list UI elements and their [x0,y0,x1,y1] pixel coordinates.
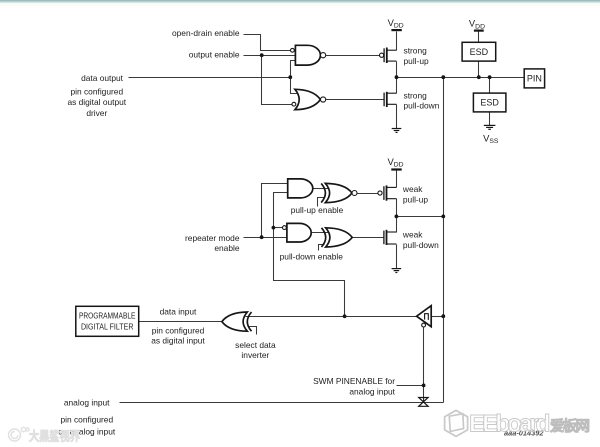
wire data input branch to AND U3 input 2 and AND U4 input 1 [274,193,345,317]
svg-text:strong: strong [404,90,428,100]
watermark EEboard logo hexagon [445,410,468,436]
XNOR U5 input arc [321,183,325,202]
wire SWM PINENABLE to control junction [397,385,424,387]
svg-text:pin configured: pin configured [70,87,123,97]
wire ESD1 to pin line [478,62,480,78]
wire strong output node vertical [396,62,398,94]
svg-text:data input: data input [160,307,197,317]
svg-text:爱板网: 爱板网 [550,417,590,435]
weak pull-up gate bubble [378,191,382,195]
wire repeater mode enable to AND U4 input 2 [244,237,287,239]
node junction data input / AND U4 bubble [272,226,276,230]
transistor Q3 weak pull-up PMOS [384,185,397,200]
node junction SWM control [422,384,426,388]
wire VDD to strong pull-up source [396,32,398,51]
wire strong node to PIN [397,77,525,79]
svg-text:EEboard: EEboard [469,411,550,438]
ESD box 1 [462,42,496,61]
svg-text:analog input: analog input [349,387,395,397]
svg-text:DIGITAL FILTER: DIGITAL FILTER [81,322,134,332]
wire pin line to ESD2 [489,78,491,94]
svg-text:SWM PINENABLE for: SWM PINENABLE for [313,376,395,386]
VDD rail weak [391,168,401,170]
node junction repeater mode enable [260,235,264,239]
XOR U7 select data inverter body (mirrored) [222,312,247,331]
node junction right rail / schmitt input [441,314,445,318]
wire weak output node vertical [396,199,398,233]
svg-text:大黑鲨视界: 大黑鲨视界 [29,429,80,444]
transistor Q1 strong pull-up PMOS [384,48,396,64]
svg-text:driver: driver [86,108,107,118]
NAND U1 input 1 bubble [291,48,295,52]
analog switch SW1 (transmission gate) [419,398,428,407]
svg-text:weak: weak [402,230,423,240]
wire open-drain enable to NAND U1 input 1 [244,35,291,51]
wire strong pull-down source to ground [396,105,398,129]
wire ESD2 to VSS ground [489,112,491,126]
wire output enable branch to NOR U2 input 2 [262,56,292,105]
wire right rail to schmitt buffer input [432,316,444,318]
watermark bottom-left logo [9,427,30,441]
svg-text:VDD: VDD [469,18,485,31]
svg-text:output enable: output enable [189,50,240,60]
wire pull-down enable stub to XOR U6 input 2 [319,245,325,251]
strong pull-up gate bubble [380,53,384,57]
wire AND U4 bubble input stub [274,227,283,229]
wire AND U3 output to XNOR U5 [313,188,329,190]
transistor Q4 weak pull-down NMOS [384,230,397,245]
wire XNOR U5 output to weak pull-up gate [358,193,378,195]
node junction data input line [343,314,347,318]
NOR U2 input 2 bubble [292,102,296,106]
svg-text:ESD: ESD [480,98,499,108]
transistor Q2 strong pull-down NMOS [384,92,396,107]
wire XOR U6 output to weak pull-down gate [353,237,384,239]
XOR U6 input arc [322,228,326,247]
svg-text:VSS: VSS [483,133,499,146]
node junction pin line / ESD2 [488,75,492,79]
XNOR U5 output bubble [352,191,357,196]
wire VDD to ESD1 [478,32,480,43]
svg-text:as digital input: as digital input [151,336,205,346]
svg-text:pin configured: pin configured [152,325,205,335]
svg-text:pull-up enable: pull-up enable [291,205,344,215]
schmitt U8 enable bubble [422,323,426,327]
wire NOR U2 output to strong pull-down gate [326,99,385,101]
XOR U6 body [326,228,353,247]
svg-text:pin configured: pin configured [60,415,113,425]
svg-text:data output: data output [81,73,124,83]
svg-text:pull-down: pull-down [404,101,440,111]
NAND U1 body [295,45,320,65]
svg-text:VDD: VDD [388,156,404,169]
svg-text:open-drain enable: open-drain enable [172,28,240,38]
svg-text:pull-up: pull-up [404,56,429,66]
svg-text:inverter: inverter [241,350,269,360]
node junction output enable branch [260,53,264,57]
svg-text:ESD: ESD [470,47,489,57]
wire VDD to weak pull-up source [396,171,398,188]
node junction data output / NAND input [288,75,292,79]
svg-text:weak: weak [402,184,423,194]
wire weak node to right rail [397,216,444,218]
wire NAND U1 output to strong pull-up gate [326,55,380,57]
svg-text:repeater mode: repeater mode [185,233,240,243]
wire data output [129,77,291,79]
wire pull-up enable stub to XNOR U5 input 2 [318,198,325,207]
ground weak pull-down [392,269,402,273]
VDD rail strong [391,29,401,31]
svg-text:analog input: analog input [64,397,110,407]
ESD box 2 [473,93,506,112]
wire digital filter to XOR U7 output [139,321,222,323]
svg-text:PIN: PIN [527,74,542,84]
svg-text:PROGRAMMABLE: PROGRAMMABLE [79,311,136,321]
ground ESD2 VSS [484,125,496,129]
svg-text:as digital output: as digital output [67,97,126,107]
node junction weak output [395,215,399,219]
VDD rail ESD [474,30,484,32]
schmitt U8 hysteresis symbol [425,314,429,320]
svg-text:pull-down: pull-down [403,240,439,250]
AND U3 body [288,179,313,198]
wire right rail from PIN node down to analog switch [443,78,445,403]
node junction pin line / right rail [441,75,445,79]
wire weak pull-down source to ground [396,245,398,269]
AND U4 body [287,223,311,242]
AND U4 input 1 bubble [283,226,287,230]
programmable digital filter box [76,306,139,336]
top teal banner [0,0,600,3]
wire AND U4 output to XOR U6 [312,232,329,234]
wire output enable to NAND U1 input 2 [244,55,296,57]
wire repeater branch to AND U3 input 1 [262,184,288,238]
wire select data inverter stub to XOR U7 input 2 [249,327,257,335]
schmitt trigger input buffer U8 [417,306,432,327]
ground strong pull-down [392,129,402,133]
NOR U2 output bubble [321,97,326,102]
svg-text:pull-up: pull-up [403,194,428,204]
PIN box [524,69,544,88]
NAND U1 output bubble [321,53,326,58]
wire schmitt enable bubble to SWM control [423,328,425,398]
node junction strong output [395,75,399,79]
node junction pin line / ESD1 [477,75,481,79]
XOR U7 input arc [247,312,251,331]
NOR U2 body [295,89,321,109]
svg-text:strong: strong [404,46,428,56]
node junction weak output / right rail [441,215,445,219]
svg-text:VDD: VDD [388,17,404,30]
XNOR U5 body [325,183,352,202]
wire analog input to switch [120,402,444,404]
svg-text:select data: select data [235,340,276,350]
wire data output to NAND U1 input 3 and NOR U2 input 1 [291,61,298,94]
svg-text:pull-down enable: pull-down enable [280,252,344,262]
svg-text:enable: enable [214,243,239,253]
wire data input line from schmitt buffer to XOR U7 input 1 [246,316,417,318]
